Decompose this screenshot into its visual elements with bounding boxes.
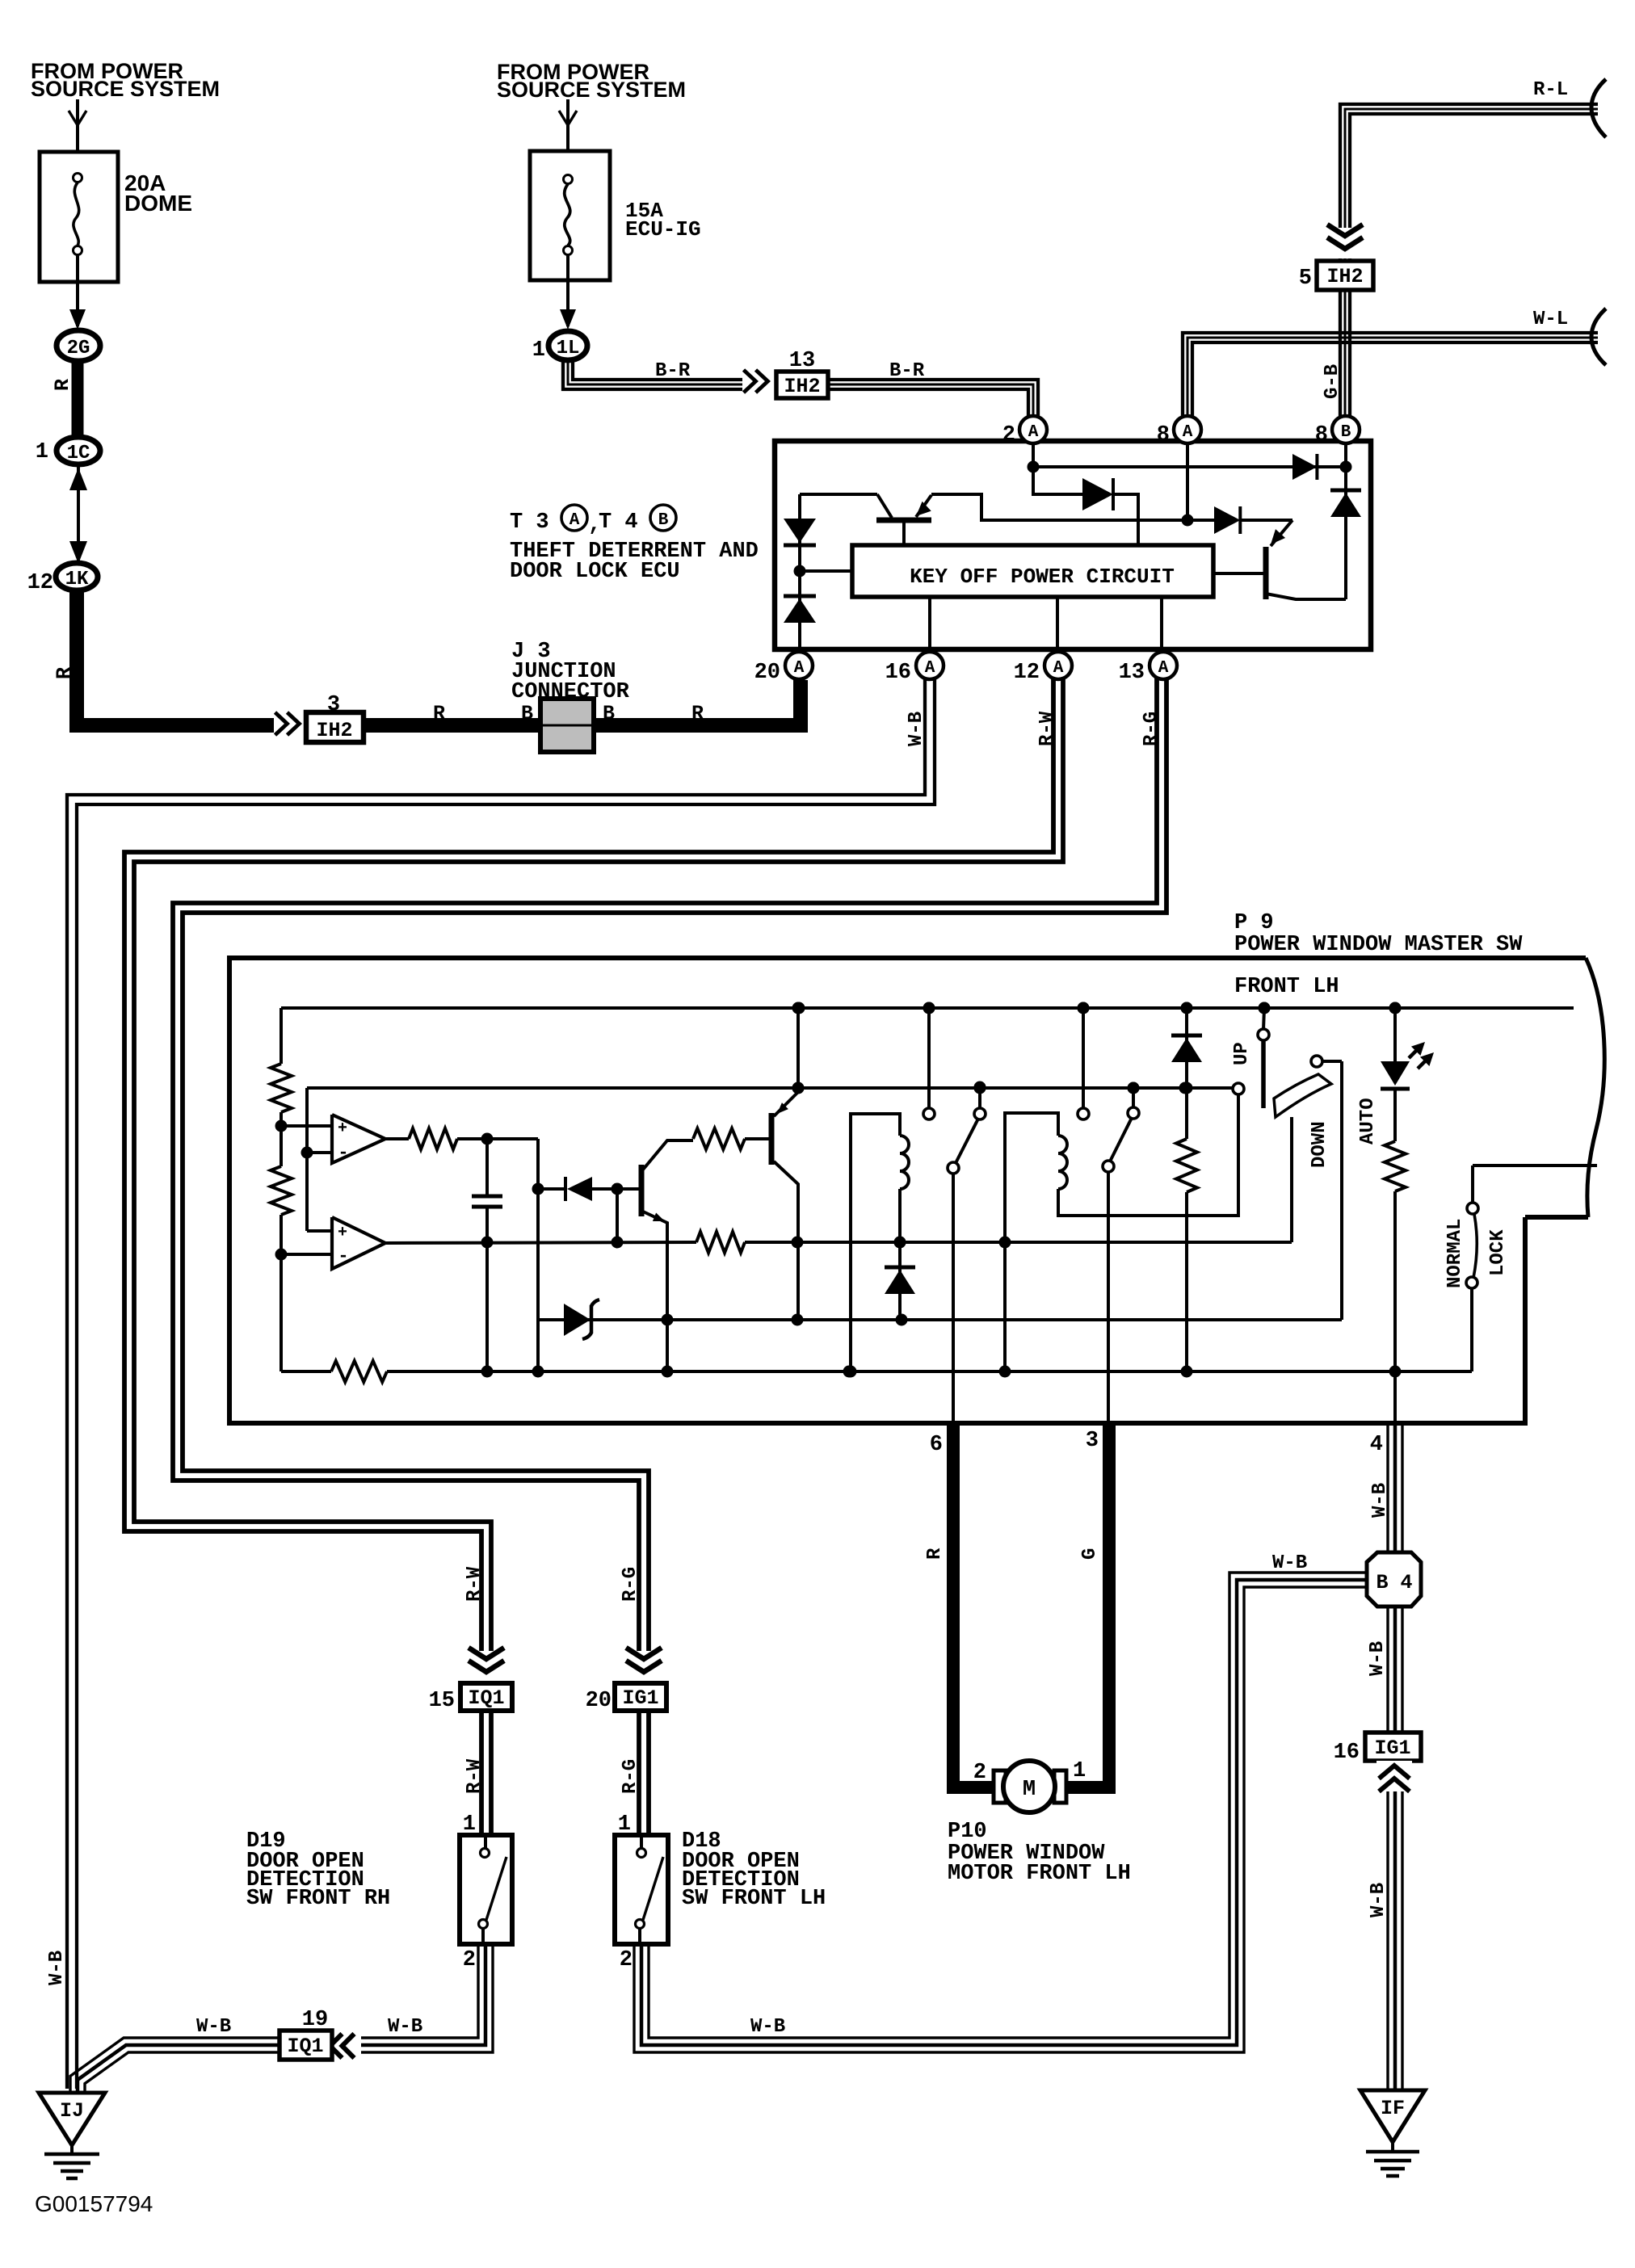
svg-text:20: 20 — [586, 1689, 612, 1713]
svg-text:4: 4 — [1370, 1433, 1383, 1457]
svg-text:3: 3 — [1086, 1429, 1099, 1453]
svg-text:R-G: R-G — [620, 1759, 641, 1794]
svg-text:B: B — [603, 702, 615, 725]
svg-text:R: R — [53, 667, 76, 679]
svg-text:W-B: W-B — [1369, 1483, 1391, 1518]
svg-text:NORMAL: NORMAL — [1444, 1219, 1466, 1288]
svg-text:W-B: W-B — [1272, 1552, 1307, 1574]
svg-text:DOWN: DOWN — [1309, 1121, 1330, 1168]
svg-text:R: R — [924, 1548, 946, 1560]
svg-text:W-L: W-L — [1533, 309, 1568, 330]
svg-text:T 4: T 4 — [599, 510, 638, 535]
svg-text:W-B: W-B — [1367, 1641, 1389, 1676]
svg-text:13: 13 — [1119, 661, 1145, 685]
svg-text:-: - — [338, 1246, 348, 1266]
svg-text:19: 19 — [302, 2008, 328, 2032]
svg-text:8: 8 — [1157, 423, 1170, 447]
svg-text:MOTOR FRONT LH: MOTOR FRONT LH — [948, 1862, 1131, 1886]
svg-text:W-B: W-B — [196, 2016, 231, 2038]
svg-text:R-W: R-W — [464, 1566, 485, 1602]
svg-text:ECU-IG: ECU-IG — [625, 217, 701, 241]
svg-text:R: R — [691, 702, 704, 725]
svg-text:P 9: P 9 — [1234, 911, 1274, 935]
svg-text:12: 12 — [27, 571, 53, 595]
svg-text:SOURCE SYSTEM: SOURCE SYSTEM — [31, 77, 220, 101]
svg-text:1L: 1L — [557, 338, 580, 359]
svg-text:LOCK: LOCK — [1487, 1229, 1509, 1276]
svg-text:2: 2 — [463, 1948, 476, 1972]
svg-text:8: 8 — [1315, 423, 1328, 447]
svg-text:B-R: B-R — [889, 360, 925, 382]
svg-text:A: A — [1158, 659, 1169, 678]
svg-text:20: 20 — [754, 661, 780, 685]
svg-text:R-G: R-G — [1141, 712, 1162, 746]
svg-text:1: 1 — [532, 338, 545, 363]
svg-text:P10: P10 — [948, 1820, 987, 1844]
svg-text:15: 15 — [429, 1689, 455, 1713]
svg-text:+: + — [338, 1224, 347, 1242]
svg-text:IH2: IH2 — [784, 375, 820, 398]
svg-text:AUTO: AUTO — [1357, 1098, 1379, 1144]
svg-text:A: A — [570, 511, 580, 530]
svg-text:R: R — [51, 379, 74, 391]
svg-text:5: 5 — [1299, 267, 1312, 291]
svg-text:IG1: IG1 — [622, 1686, 658, 1710]
svg-text:A: A — [794, 659, 805, 678]
svg-text:IQ1: IQ1 — [468, 1686, 504, 1710]
svg-text:CONNECTOR: CONNECTOR — [511, 680, 630, 704]
svg-text:16: 16 — [1334, 1741, 1360, 1765]
svg-text:2: 2 — [620, 1948, 633, 1972]
svg-text:1K: 1K — [65, 569, 89, 590]
svg-text:R: R — [433, 702, 445, 725]
svg-text:IH2: IH2 — [316, 719, 352, 742]
svg-text:A: A — [1028, 423, 1039, 442]
svg-text:SW FRONT RH: SW FRONT RH — [246, 1887, 390, 1911]
svg-text:M: M — [1023, 1778, 1036, 1802]
svg-text:B: B — [658, 511, 669, 530]
svg-text:R-W: R-W — [1036, 711, 1058, 746]
svg-text:W-B: W-B — [750, 2016, 785, 2038]
svg-text:G-B: G-B — [1322, 364, 1343, 399]
svg-text:-: - — [338, 1143, 348, 1163]
svg-text:G: G — [1079, 1548, 1101, 1560]
svg-text:1: 1 — [1073, 1759, 1086, 1783]
svg-text:A: A — [1183, 423, 1193, 442]
svg-text:DOME: DOME — [124, 191, 192, 216]
svg-text:UP: UP — [1231, 1042, 1253, 1065]
svg-text:R-G: R-G — [620, 1567, 641, 1602]
svg-text:W-B: W-B — [388, 2016, 422, 2038]
svg-text:12: 12 — [1014, 661, 1040, 685]
svg-text:DOOR LOCK ECU: DOOR LOCK ECU — [510, 560, 680, 584]
svg-text:6: 6 — [930, 1433, 943, 1457]
svg-text:T 3: T 3 — [510, 510, 549, 535]
svg-text:IF: IF — [1381, 2097, 1405, 2120]
svg-text:SOURCE SYSTEM: SOURCE SYSTEM — [497, 78, 686, 102]
svg-text:2: 2 — [973, 1761, 986, 1785]
svg-text:KEY OFF POWER CIRCUIT: KEY OFF POWER CIRCUIT — [910, 565, 1175, 589]
svg-text:B-R: B-R — [655, 360, 691, 382]
svg-text:13: 13 — [789, 349, 815, 373]
svg-text:2: 2 — [1002, 423, 1015, 447]
svg-text:SW FRONT LH: SW FRONT LH — [682, 1887, 826, 1911]
svg-text:B: B — [1341, 423, 1351, 442]
svg-text:W-B: W-B — [46, 1951, 68, 1985]
svg-text:G00157794: G00157794 — [35, 2191, 153, 2216]
svg-text:A: A — [1053, 659, 1064, 678]
svg-text:R-L: R-L — [1533, 79, 1568, 101]
svg-text:FRONT LH: FRONT LH — [1234, 975, 1339, 999]
svg-text:3: 3 — [327, 693, 340, 717]
svg-text:IH2: IH2 — [1326, 265, 1363, 288]
svg-text:IQ1: IQ1 — [287, 2035, 323, 2058]
svg-text:W-B: W-B — [1368, 1883, 1389, 1917]
svg-text:A: A — [925, 659, 935, 678]
svg-text:IJ: IJ — [60, 2099, 84, 2123]
svg-text:R-W: R-W — [464, 1758, 485, 1794]
svg-text:1C: 1C — [67, 443, 90, 464]
svg-text:B: B — [521, 702, 533, 725]
svg-text:B 4: B 4 — [1376, 1571, 1412, 1594]
svg-text:1: 1 — [36, 440, 48, 464]
svg-text:2G: 2G — [67, 338, 90, 359]
svg-text:+: + — [338, 1119, 347, 1138]
svg-text:16: 16 — [885, 661, 911, 685]
svg-text:POWER WINDOW MASTER SW: POWER WINDOW MASTER SW — [1234, 933, 1523, 957]
svg-text:IG1: IG1 — [1374, 1737, 1410, 1760]
svg-text:W-B: W-B — [906, 712, 927, 746]
